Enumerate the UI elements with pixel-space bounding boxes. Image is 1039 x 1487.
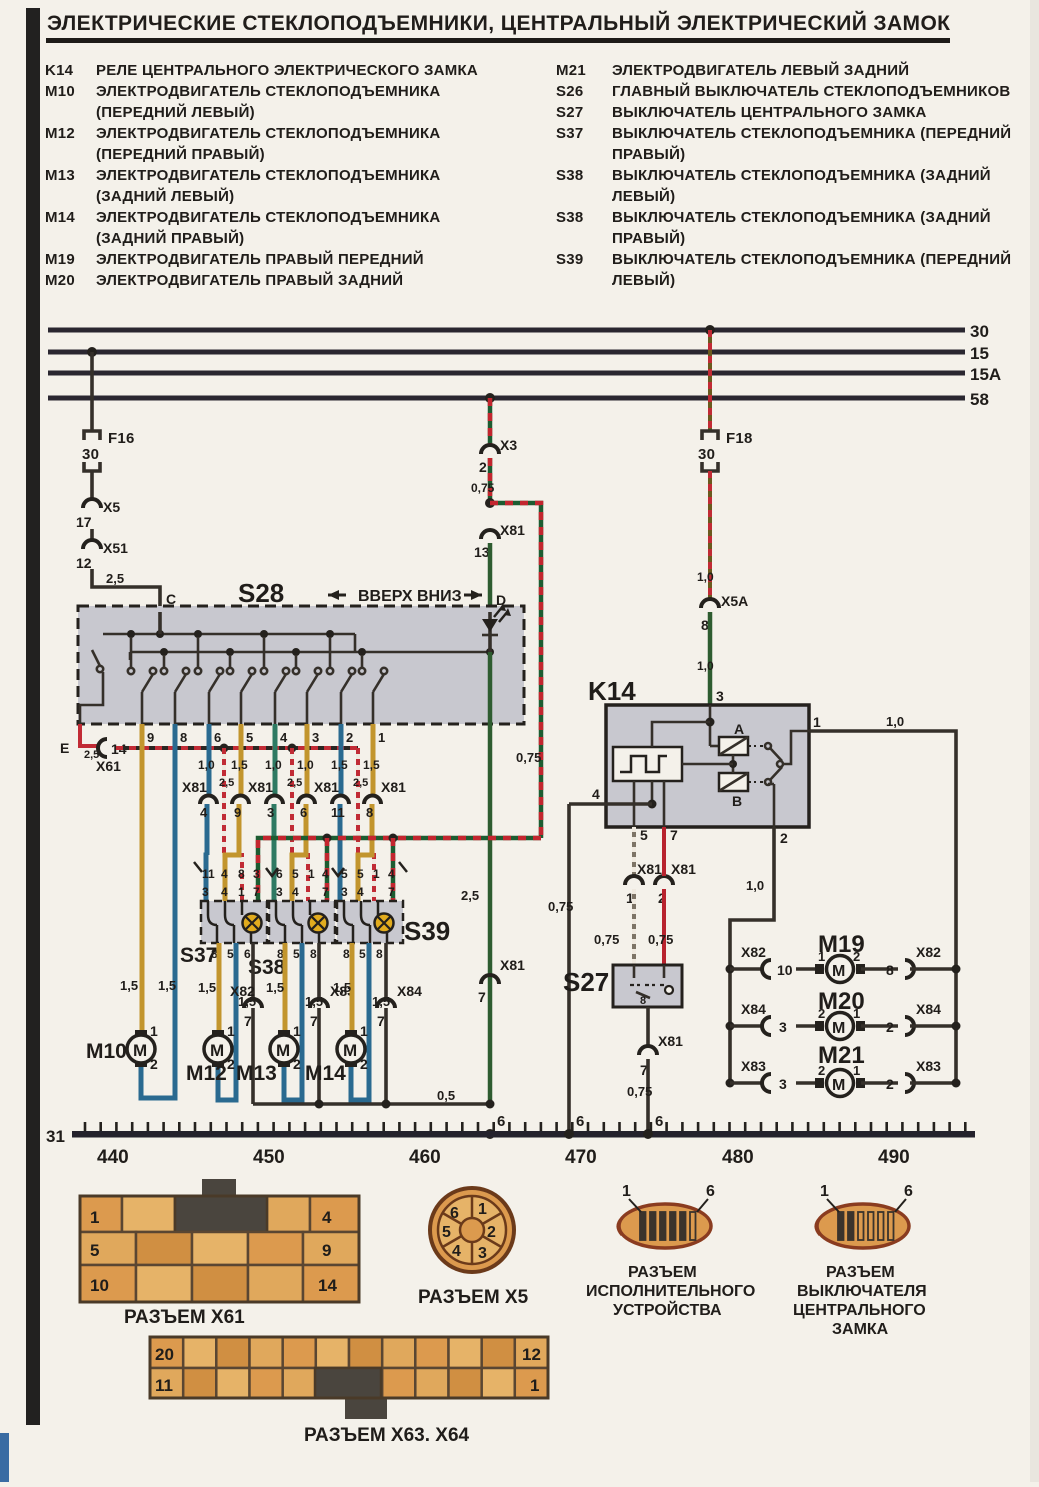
wire S28 pin 4 teal via X81-3 to S38 (265, 724, 282, 901)
wire X83-3 to M21 (796, 1081, 820, 1085)
svg-text:3: 3 (202, 885, 209, 899)
svg-text:X81: X81 (500, 522, 525, 538)
node D-wire to bus 31 (485, 1113, 506, 1139)
svg-text:1,5: 1,5 (198, 980, 216, 995)
svg-text:4: 4 (292, 885, 299, 899)
svg-text:X3: X3 (500, 437, 517, 453)
svg-text:5: 5 (293, 947, 300, 961)
connector X81 pin 13 (474, 522, 525, 560)
svg-text:30: 30 (698, 446, 715, 463)
svg-text:1,0: 1,0 (886, 714, 904, 729)
svg-text:440: 440 (97, 1147, 129, 1168)
svg-text:X81: X81 (381, 779, 406, 795)
svg-text:X83: X83 (916, 1058, 941, 1074)
wire bus15 to fuse F16 (90, 352, 94, 430)
K14 pin 2 wire down (730, 827, 788, 1083)
motor M21 (815, 1063, 865, 1097)
svg-text:1: 1 (373, 867, 380, 881)
svg-text:M13: M13 (45, 167, 75, 184)
S28 internal rail 2 (130, 634, 490, 660)
connector X81 pin 7 on D-wire (478, 957, 525, 1005)
svg-text:K14: K14 (45, 62, 74, 79)
svg-text:3: 3 (253, 867, 260, 881)
S28 rail junctions (127, 630, 494, 656)
svg-text:7: 7 (322, 885, 329, 899)
S39 label (404, 916, 450, 946)
wire bus30 to fuse F18, red/yellow striped (708, 330, 712, 430)
connector X82 pin 8 right (886, 944, 941, 978)
svg-text:7: 7 (244, 1013, 252, 1029)
wire F16 to connector X5 (90, 471, 94, 499)
svg-text:3: 3 (276, 885, 283, 899)
svg-text:M12: M12 (186, 1062, 227, 1085)
svg-text:8: 8 (886, 962, 894, 978)
wire X81-7 to bus 31, 0.75 (627, 1059, 664, 1139)
svg-text:6: 6 (576, 1113, 585, 1130)
title (46, 11, 950, 43)
svg-text:1: 1 (820, 1183, 829, 1200)
connector X5 pin 17 (76, 499, 120, 530)
svg-text:X84: X84 (397, 983, 422, 999)
K14 pulse generator U (613, 747, 682, 781)
label РАЗЪЕМ X5 (418, 1287, 529, 1308)
label РАЗЪЕМ ИСПОЛНИТЕЛЬНОГО УСТРОЙСТВА (586, 1264, 755, 1319)
svg-text:S38: S38 (556, 209, 583, 226)
svg-text:20: 20 (155, 1345, 174, 1364)
svg-text:M: M (276, 1041, 290, 1060)
connector drawing of central lock switch (816, 1183, 913, 1248)
label РАЗЪЕМ ВЫКЛЮЧАТЕЛЯ ЦЕНТРАЛЬНОГО ЗАМКА (793, 1264, 927, 1338)
svg-text:X81: X81 (658, 1033, 683, 1049)
S28 internal rail 1 (103, 633, 355, 636)
wire K14 pin5 gray to S27 (632, 827, 636, 876)
svg-text:S27: S27 (563, 967, 609, 997)
svg-text:ВЫКЛЮЧАТЕЛЬ СТЕКЛОПОДЪЕМНИКА (: ВЫКЛЮЧАТЕЛЬ СТЕКЛОПОДЪЕМНИКА (ПЕРЕДНИЙ (612, 124, 1011, 142)
K14 pin 4 wire to ground (569, 781, 657, 809)
svg-text:X82: X82 (916, 944, 941, 960)
svg-text:X61: X61 (96, 758, 121, 774)
wire X84-3 to M20 (796, 1024, 820, 1028)
svg-text:1,0: 1,0 (697, 570, 714, 584)
bus 31 scale numbers (97, 1147, 910, 1168)
svg-text:8: 8 (640, 995, 646, 1007)
svg-text:8: 8 (238, 867, 245, 881)
svg-text:M20: M20 (45, 272, 75, 289)
wire D continues below S28 (488, 652, 493, 1104)
K14 coil link wire (682, 755, 737, 773)
svg-text:ПРАВЫЙ): ПРАВЫЙ) (612, 145, 685, 163)
svg-text:7: 7 (478, 989, 486, 1005)
svg-text:0,75: 0,75 (627, 1084, 652, 1099)
legend right column (556, 61, 1011, 289)
connector X81 pin 1 (625, 861, 662, 906)
S37 bottom pin labels (211, 947, 251, 961)
svg-text:6: 6 (276, 867, 283, 881)
svg-text:2: 2 (227, 1056, 235, 1072)
svg-text:K14: K14 (588, 676, 636, 706)
wire X81-2 red to S27, 0.75 (648, 827, 673, 965)
svg-text:X84: X84 (916, 1001, 941, 1017)
svg-text:X82: X82 (230, 983, 255, 999)
svg-text:5: 5 (246, 730, 253, 745)
connector drawing X63 X64 (150, 1337, 548, 1419)
connector X83 pin 7 (310, 983, 355, 1029)
wire S27 to X81-7 (646, 1007, 650, 1046)
svg-text:0,75: 0,75 (516, 750, 541, 765)
connector X81 pin 2 (655, 861, 696, 906)
svg-text:3: 3 (779, 1019, 787, 1035)
wire F18 to X5A, striped 1.0 (697, 471, 714, 599)
svg-text:S26: S26 (556, 83, 583, 100)
K14 pin 5 wire (634, 781, 648, 843)
svg-text:РАЗЪЕМ: РАЗЪЕМ (628, 1264, 697, 1281)
svg-text:1,5: 1,5 (331, 758, 348, 772)
svg-text:S39: S39 (404, 916, 450, 946)
svg-text:M: M (832, 1020, 845, 1037)
K14 internal wire pin3 (652, 705, 719, 747)
svg-text:2,5: 2,5 (287, 777, 302, 789)
svg-text:S38: S38 (556, 167, 583, 184)
node left rail M19 (726, 965, 765, 974)
svg-text:2: 2 (853, 949, 860, 964)
svg-text:M14: M14 (45, 209, 75, 226)
wire red/white drop to S39, 2.5 (353, 748, 374, 901)
svg-text:M19: M19 (45, 251, 75, 268)
svg-text:ЛЕВЫЙ): ЛЕВЫЙ) (612, 187, 675, 205)
svg-text:6: 6 (904, 1183, 913, 1200)
fuse F18 (698, 430, 753, 471)
svg-text:5: 5 (357, 867, 364, 881)
svg-text:1: 1 (308, 867, 315, 881)
wire D-wire labels 2.5 and X81-7 (461, 888, 479, 903)
svg-text:1: 1 (360, 1023, 368, 1039)
svg-text:3: 3 (341, 885, 348, 899)
svg-text:490: 490 (878, 1147, 910, 1168)
S28 lock switch (left) (80, 650, 103, 724)
svg-text:3: 3 (312, 730, 319, 745)
svg-text:7: 7 (377, 1013, 385, 1029)
wire S28 pin 8 blue, M10 loop (141, 724, 176, 1098)
S37 label (180, 944, 217, 967)
connector X81 pin 9 (232, 796, 249, 821)
svg-text:2,5: 2,5 (219, 777, 234, 789)
connector X81 pin 4 (182, 779, 217, 820)
node lamp tee S38 (323, 834, 332, 902)
wire M21 to X83-2 (861, 1081, 898, 1085)
svg-text:M: M (832, 963, 845, 980)
svg-text:1: 1 (238, 885, 245, 899)
svg-text:480: 480 (722, 1147, 754, 1168)
wire red/white drop to S38, 2.5 (287, 748, 308, 901)
lamp in S38 (309, 914, 328, 933)
wire lock signal red/green striped to switch lamps (258, 838, 541, 901)
S28 switch contacts 1 (128, 637, 156, 724)
svg-text:2: 2 (479, 459, 487, 475)
wire M19 to X82-8 (861, 967, 898, 971)
S28 switch contacts 8 (359, 655, 387, 724)
bus 30 (48, 322, 989, 341)
svg-text:УСТРОЙСТВА: УСТРОЙСТВА (613, 1300, 722, 1319)
svg-text:X81: X81 (671, 861, 696, 877)
svg-text:1,0: 1,0 (297, 758, 314, 772)
svg-text:1,5: 1,5 (158, 978, 176, 993)
wire X5 to connector X51 (90, 529, 94, 540)
svg-text:РЕЛЕ ЦЕНТРАЛЬНОГО ЭЛЕКТРИЧЕСКО: РЕЛЕ ЦЕНТРАЛЬНОГО ЭЛЕКТРИЧЕСКОГО ЗАМКА (96, 62, 478, 79)
node left rail M21 (726, 1079, 765, 1088)
svg-text:X81: X81 (182, 779, 207, 795)
svg-text:0,5: 0,5 (437, 1088, 455, 1103)
svg-text:6: 6 (450, 1205, 459, 1222)
wire branch to right, red/green striped 0.75 (490, 503, 541, 838)
motor M14 (305, 1023, 368, 1085)
svg-text:4: 4 (322, 1208, 332, 1227)
svg-text:M: M (832, 1077, 845, 1094)
switch pin labels row B (202, 885, 395, 899)
svg-text:31: 31 (46, 1127, 65, 1146)
svg-text:M: M (210, 1041, 224, 1060)
svg-text:ЭЛЕКТРИЧЕСКИЕ СТЕКЛОПОДЪЕМНИКИ: ЭЛЕКТРИЧЕСКИЕ СТЕКЛОПОДЪЕМНИКИ, ЦЕНТРАЛЬ… (47, 11, 950, 35)
wire S39 to X84-7 (384, 943, 388, 1104)
svg-text:РАЗЪЕМ: РАЗЪЕМ (826, 1264, 895, 1281)
window switch S39 (337, 901, 403, 943)
svg-text:1,0: 1,0 (198, 758, 215, 772)
motor M12 (186, 1023, 235, 1085)
LED of node D inside S28 (482, 603, 511, 652)
svg-text:7: 7 (310, 1013, 318, 1029)
svg-text:5: 5 (227, 947, 234, 961)
svg-text:(ПЕРЕДНИЙ ПРАВЫЙ): (ПЕРЕДНИЙ ПРАВЫЙ) (96, 145, 265, 163)
svg-text:30: 30 (970, 322, 989, 341)
connector X84 pin 3 left (741, 1001, 787, 1035)
svg-text:450: 450 (253, 1147, 285, 1168)
svg-text:(ЗАДНИЙ ПРАВЫЙ): (ЗАДНИЙ ПРАВЫЙ) (96, 229, 244, 247)
svg-text:5: 5 (341, 867, 348, 881)
svg-text:4: 4 (388, 867, 395, 881)
svg-text:1,5: 1,5 (231, 758, 248, 772)
svg-text:РАЗЪЕМ X5: РАЗЪЕМ X5 (418, 1287, 529, 1308)
wire X81-1 to S27, 0.75 (594, 889, 634, 965)
wire bus58 to X3, red/green striped (488, 398, 493, 445)
S38 bottom pin labels (277, 947, 317, 961)
connector X81 pin 3 (248, 779, 283, 820)
svg-text:B: B (732, 793, 742, 809)
svg-text:A: A (734, 721, 744, 737)
wire K14 pin 1 to right rail, 1.0 (809, 714, 956, 1083)
connector X3 pin 2 (479, 437, 517, 475)
svg-text:5: 5 (292, 867, 299, 881)
svg-text:7: 7 (670, 827, 678, 843)
connector drawing of actuator (618, 1183, 715, 1248)
connector X61 pin 14 (96, 739, 127, 774)
wire E red/black striped 2.5 to switches (116, 746, 358, 750)
svg-text:2,5: 2,5 (106, 571, 124, 586)
svg-text:1: 1 (813, 714, 821, 730)
wire X81-13 to node D of S28 (490, 543, 506, 612)
svg-text:ВЫКЛЮЧАТЕЛЬ ЦЕНТРАЛЬНОГО ЗАМКА: ВЫКЛЮЧАТЕЛЬ ЦЕНТРАЛЬНОГО ЗАМКА (612, 104, 927, 121)
svg-text:2: 2 (818, 1063, 825, 1078)
svg-text:4: 4 (452, 1243, 461, 1260)
svg-text:8: 8 (366, 805, 373, 820)
S28 switch contacts 4 (227, 655, 255, 724)
svg-text:ЦЕНТРАЛЬНОГО: ЦЕНТРАЛЬНОГО (793, 1302, 926, 1319)
motor M19 (815, 949, 865, 983)
svg-text:1,5: 1,5 (333, 980, 351, 995)
svg-text:4: 4 (592, 786, 600, 802)
wire red/white drop to S37, 2.5 (219, 748, 242, 901)
wire S37 blue loop to M12 pin 2, 1.5 (218, 943, 256, 1100)
svg-text:1: 1 (853, 1006, 860, 1021)
svg-text:6: 6 (655, 1113, 664, 1130)
motor M10 (86, 1023, 158, 1072)
motor M19 row (818, 931, 865, 958)
svg-text:X81: X81 (248, 779, 273, 795)
svg-text:M14: M14 (305, 1062, 346, 1085)
svg-text:X83: X83 (741, 1058, 766, 1074)
connector X82 pin 10 left (741, 944, 793, 978)
svg-text:17: 17 (76, 514, 92, 530)
svg-text:4: 4 (221, 885, 228, 899)
svg-text:2,5: 2,5 (353, 777, 368, 789)
wire S37 yellow to M12 pin 1, 1.5 (198, 943, 219, 1035)
switch block S28 (78, 578, 524, 724)
svg-text:2: 2 (780, 830, 788, 846)
S28 switch contacts 2 (161, 655, 189, 724)
svg-text:ВЫКЛЮЧАТЕЛЬ СТЕКЛОПОДЪЕМНИКА (: ВЫКЛЮЧАТЕЛЬ СТЕКЛОПОДЪЕМНИКА (ЗАДНИЙ (612, 208, 991, 226)
svg-text:460: 460 (409, 1147, 441, 1168)
svg-text:X5A: X5A (721, 593, 748, 609)
bus 31 (46, 1127, 975, 1146)
svg-text:1: 1 (818, 949, 825, 964)
lamp in S39 (375, 914, 394, 933)
svg-text:ЭЛЕКТРОДВИГАТЕЛЬ СТЕКЛОПОДЪЕМН: ЭЛЕКТРОДВИГАТЕЛЬ СТЕКЛОПОДЪЕМНИКА (96, 125, 441, 142)
svg-text:470: 470 (565, 1147, 597, 1168)
svg-text:M: M (343, 1041, 357, 1060)
svg-text:ЭЛЕКТРОДВИГАТЕЛЬ СТЕКЛОПОДЪЕМН: ЭЛЕКТРОДВИГАТЕЛЬ СТЕКЛОПОДЪЕМНИКА (96, 167, 441, 184)
svg-text:X81: X81 (314, 779, 339, 795)
svg-text:7: 7 (388, 885, 395, 899)
svg-text:X81: X81 (637, 861, 662, 877)
svg-text:4: 4 (200, 805, 208, 820)
left margin bar (26, 8, 40, 1425)
K14 pin 1 label (813, 714, 821, 730)
node E exit of S28 (60, 724, 99, 761)
svg-text:2: 2 (487, 1224, 496, 1241)
wire S28 pin 1 yellow via X81-8 to S39 (358, 724, 380, 901)
svg-text:F18: F18 (726, 430, 753, 447)
svg-text:13: 13 (474, 544, 490, 560)
window switch S37 (201, 901, 267, 943)
svg-text:ЭЛЕКТРОДВИГАТЕЛЬ ЛЕВЫЙ ЗАДНИЙ: ЭЛЕКТРОДВИГАТЕЛЬ ЛЕВЫЙ ЗАДНИЙ (612, 61, 909, 79)
connector X5A pin 8 (701, 593, 748, 633)
svg-text:8: 8 (343, 947, 350, 961)
connector X83 pin 2 right (886, 1058, 941, 1092)
svg-text:5: 5 (442, 1224, 451, 1241)
svg-text:X84: X84 (741, 1001, 766, 1017)
node on bus 15 for F16 (87, 347, 97, 357)
svg-text:9: 9 (322, 1241, 331, 1260)
svg-text:0,75: 0,75 (594, 932, 619, 947)
svg-text:ВВЕРХ ВНИЗ: ВВЕРХ ВНИЗ (358, 588, 462, 605)
svg-text:1: 1 (90, 1208, 99, 1227)
svg-text:9: 9 (234, 805, 241, 820)
svg-text:14: 14 (318, 1276, 337, 1295)
node branch of lock wire (485, 498, 495, 508)
node E-wire tee 1 (220, 744, 229, 753)
svg-text:11: 11 (331, 805, 345, 820)
svg-text:5: 5 (640, 827, 648, 843)
node on bus 58 for X3 (485, 393, 495, 403)
svg-text:5: 5 (359, 947, 366, 961)
connector drawing X5 (430, 1188, 514, 1272)
wire S38 blue loop to M13 pin 2, 1.5 (284, 943, 323, 1100)
wire S28 pin 3 yellow via X81-6 to S38 (292, 724, 314, 901)
S28 pin labels (147, 730, 385, 745)
wire X82-10 to M19 (796, 967, 820, 971)
connector marks above switch row (194, 862, 407, 876)
svg-text:2: 2 (360, 1056, 368, 1072)
lamp in S37 (243, 914, 262, 933)
relay K14 (588, 676, 809, 827)
svg-text:S28: S28 (238, 578, 284, 608)
svg-text:S27: S27 (556, 104, 583, 121)
connector X83 pin 3 left (741, 1058, 787, 1092)
wire M20 to X84-2 (861, 1024, 898, 1028)
svg-text:1: 1 (530, 1376, 539, 1395)
svg-text:X81: X81 (500, 957, 525, 973)
svg-text:ВЫКЛЮЧАТЕЛЯ: ВЫКЛЮЧАТЕЛЯ (797, 1283, 927, 1300)
wire S38 yellow to M13 pin 1, 1.5 (266, 943, 285, 1035)
wire X82-8 to right rail (910, 965, 961, 974)
S39 bottom pin labels (343, 947, 383, 961)
wire S28 pin 9 yellow to M10 pin 1 (120, 724, 142, 1035)
K14 relay coil B (719, 773, 748, 809)
svg-text:3: 3 (779, 1076, 787, 1092)
K14 relay coil A (719, 721, 748, 755)
svg-text:6: 6 (244, 947, 251, 961)
svg-text:2: 2 (818, 1006, 825, 1021)
svg-text:1: 1 (478, 1201, 487, 1218)
lock switch S27 (563, 965, 682, 1007)
fuse F16 (82, 430, 135, 471)
window switch S38 (269, 901, 335, 943)
wire X83-2 to right rail (910, 1079, 961, 1088)
S28 switch contacts 3 (195, 637, 223, 724)
svg-text:1,0: 1,0 (746, 878, 764, 893)
svg-text:1: 1 (622, 1183, 631, 1200)
svg-text:1,0: 1,0 (697, 659, 714, 673)
svg-text:ПРАВЫЙ): ПРАВЫЙ) (612, 229, 685, 247)
wire X3 to junction, 0.75mm (471, 458, 495, 503)
K14 pin 7 wire (664, 781, 678, 843)
svg-text:10: 10 (90, 1276, 109, 1295)
S38 label (248, 956, 286, 979)
node X84 wire joins 0.5 (382, 1100, 391, 1109)
svg-text:58: 58 (970, 390, 989, 409)
svg-text:F16: F16 (108, 430, 135, 447)
node lamp tee S39 (389, 834, 398, 902)
connector X81 pin 8 (364, 779, 406, 820)
svg-text:6: 6 (300, 805, 307, 820)
wire S39 blue loop to M14 pin 2, 1.5 (351, 943, 390, 1100)
svg-text:3: 3 (267, 805, 274, 820)
svg-text:ИСПОЛНИТЕЛЬНОГО: ИСПОЛНИТЕЛЬНОГО (586, 1283, 755, 1300)
svg-text:X5: X5 (103, 499, 120, 515)
svg-text:1,5: 1,5 (266, 980, 284, 995)
svg-text:ЭЛЕКТРОДВИГАТЕЛЬ СТЕКЛОПОДЪЕМН: ЭЛЕКТРОДВИГАТЕЛЬ СТЕКЛОПОДЪЕМНИКА (96, 83, 441, 100)
svg-text:M21: M21 (556, 62, 586, 79)
svg-text:30: 30 (82, 446, 99, 463)
svg-text:11: 11 (155, 1376, 173, 1395)
